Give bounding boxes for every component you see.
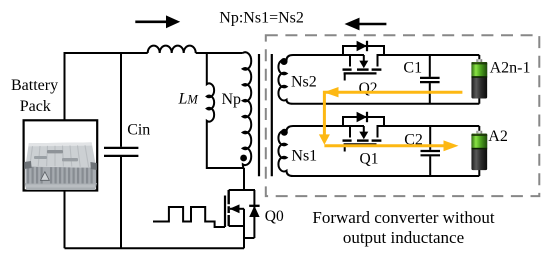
svg-text:Q1: Q1 — [360, 150, 379, 167]
svg-text:Forward converter without: Forward converter without — [312, 208, 495, 227]
svg-text:LM: LM — [178, 91, 199, 108]
svg-text:Q0: Q0 — [265, 208, 284, 225]
svg-text:Np: Np — [222, 91, 242, 108]
svg-text:Cin: Cin — [127, 122, 150, 139]
svg-text:A2: A2 — [488, 128, 508, 145]
svg-text:Np:Ns1=Ns2: Np:Ns1=Ns2 — [219, 9, 304, 26]
svg-text:A2n-1: A2n-1 — [490, 60, 531, 77]
svg-text:Q2: Q2 — [359, 80, 378, 97]
svg-text:output inductance: output inductance — [343, 228, 464, 247]
svg-text:Pack: Pack — [20, 98, 51, 115]
svg-text:Ns1: Ns1 — [291, 147, 317, 164]
svg-text:C1: C1 — [403, 59, 422, 76]
svg-text:Ns2: Ns2 — [291, 73, 317, 90]
svg-text:Battery: Battery — [11, 77, 58, 94]
